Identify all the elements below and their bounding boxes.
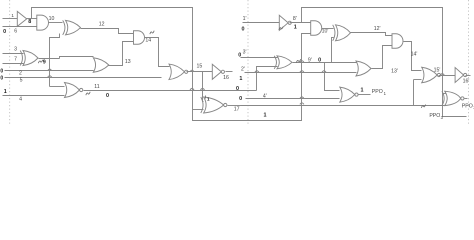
svg-text:12': 12': [374, 26, 381, 32]
svg-text:0: 0: [318, 57, 321, 63]
svg-text:14: 14: [145, 37, 151, 43]
svg-text:PPO: PPO: [372, 89, 383, 95]
svg-text:0: 0: [0, 75, 3, 81]
svg-text:0: 0: [242, 26, 245, 32]
svg-text:3: 3: [14, 46, 17, 52]
svg-text:PPO: PPO: [429, 113, 440, 119]
svg-text:8': 8': [293, 16, 297, 22]
svg-text:1: 1: [207, 96, 210, 101]
svg-text:9: 9: [43, 60, 46, 66]
svg-text:0: 0: [0, 69, 3, 75]
svg-text:0: 0: [238, 53, 241, 59]
svg-text:13': 13': [391, 69, 398, 75]
svg-text:4': 4': [263, 93, 267, 99]
svg-text:1: 1: [361, 87, 364, 93]
svg-text:1: 1: [264, 113, 267, 119]
svg-text:2: 2: [19, 70, 22, 76]
svg-text:11: 11: [94, 84, 99, 90]
svg-text:0: 0: [236, 86, 239, 92]
svg-text:15: 15: [197, 63, 203, 69]
svg-text:7: 7: [14, 57, 17, 63]
svg-text:1: 1: [239, 76, 242, 82]
svg-text:1': 1': [243, 16, 247, 22]
svg-text:1: 1: [11, 13, 14, 18]
svg-text:13: 13: [125, 59, 131, 65]
svg-text:3': 3': [243, 49, 247, 55]
svg-text:12: 12: [99, 22, 105, 28]
svg-text:0: 0: [3, 29, 6, 35]
svg-text:17: 17: [234, 106, 240, 112]
svg-text:0: 0: [239, 96, 242, 102]
svg-text:1: 1: [4, 89, 7, 95]
svg-text:14': 14': [411, 52, 418, 58]
svg-text:10': 10': [322, 29, 329, 35]
svg-text:PPO: PPO: [462, 103, 473, 109]
svg-text:5: 5: [20, 78, 23, 84]
svg-text:6: 6: [14, 28, 17, 34]
svg-text:15': 15': [434, 67, 441, 73]
svg-text:16': 16': [463, 78, 470, 84]
svg-text:9': 9': [308, 57, 312, 63]
svg-text:0: 0: [106, 93, 109, 99]
svg-text:8: 8: [28, 19, 31, 25]
svg-text:16: 16: [223, 75, 229, 81]
svg-text:10: 10: [49, 16, 55, 22]
svg-text:2': 2': [241, 66, 245, 72]
svg-text:1: 1: [294, 24, 297, 30]
svg-text:4: 4: [19, 97, 22, 103]
